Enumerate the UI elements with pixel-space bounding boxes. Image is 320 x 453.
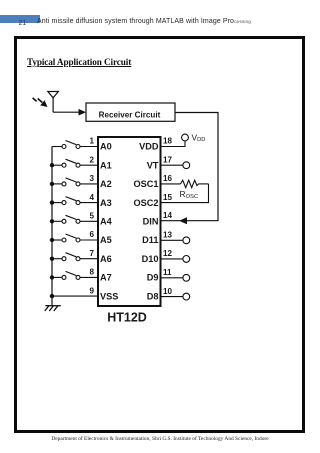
- svg-text:D9: D9: [147, 273, 159, 283]
- svg-text:Receiver Circuit: Receiver Circuit: [99, 110, 161, 119]
- wire pin10: [161, 296, 184, 298]
- junction: [50, 182, 54, 186]
- junction: [50, 294, 54, 298]
- wire pin18 to VDD terminal: [161, 141, 186, 147]
- VDD terminal: [182, 134, 189, 141]
- junction: [50, 219, 54, 223]
- svg-text:4: 4: [89, 193, 94, 202]
- svg-text:HT12D: HT12D: [107, 311, 147, 325]
- D9 terminal: [183, 274, 190, 281]
- resistor ROSC: [161, 180, 209, 187]
- antenna ANT1: [48, 92, 59, 113]
- svg-text:OSC2: OSC2: [133, 198, 158, 208]
- svg-text:D10: D10: [142, 254, 159, 264]
- svg-text:A2: A2: [100, 179, 112, 189]
- svg-text:A7: A7: [100, 273, 112, 283]
- svg-text:VT: VT: [147, 160, 159, 170]
- svg-text:6: 6: [89, 230, 94, 239]
- section heading: [27, 57, 131, 67]
- switch S1: [52, 141, 98, 149]
- wire receiver to DIN: [175, 113, 218, 225]
- D11 terminal: [183, 237, 190, 244]
- switch S4: [52, 197, 98, 205]
- svg-text:18: 18: [163, 137, 173, 146]
- wire pin17: [161, 164, 184, 166]
- junction: [50, 275, 54, 279]
- switch S5: [52, 215, 98, 223]
- IC U1 HT12D body: [98, 137, 161, 306]
- switch S8: [52, 271, 98, 279]
- header page number bar: [0, 15, 40, 22]
- svg-text:13: 13: [163, 231, 173, 240]
- svg-text:A4: A4: [100, 217, 113, 227]
- svg-text:15: 15: [163, 193, 173, 202]
- svg-text:9: 9: [89, 286, 94, 295]
- receiver circuit block: [86, 103, 175, 121]
- switch S3: [52, 178, 98, 186]
- D8 terminal: [183, 293, 190, 300]
- wire pin13: [161, 239, 184, 241]
- svg-text:8: 8: [89, 268, 94, 277]
- svg-text:7: 7: [89, 249, 94, 258]
- svg-text:A5: A5: [100, 235, 112, 245]
- svg-text:A1: A1: [100, 160, 112, 170]
- wire pin12: [161, 258, 184, 260]
- wire OSC2 loop: [161, 184, 209, 203]
- svg-text:A3: A3: [100, 198, 112, 208]
- wire VSS to bus: [52, 295, 98, 297]
- wire pin11: [161, 277, 184, 279]
- svg-text:ROSC: ROSC: [180, 189, 199, 200]
- svg-text:16: 16: [163, 174, 173, 183]
- svg-text:12: 12: [163, 249, 173, 258]
- D10 terminal: [183, 256, 190, 263]
- wire antenna to receiver: [53, 109, 86, 116]
- svg-text:VDD: VDD: [139, 142, 159, 152]
- page border frame: [14, 36, 306, 433]
- footer text: [0, 436, 320, 442]
- svg-text:A6: A6: [100, 254, 112, 264]
- junction: [50, 200, 54, 204]
- svg-text:3: 3: [89, 174, 94, 183]
- svg-text:14: 14: [163, 211, 173, 220]
- svg-text:VSS: VSS: [100, 291, 118, 301]
- svg-text:DIN: DIN: [143, 217, 159, 227]
- header title: [37, 18, 251, 25]
- switch S7: [52, 253, 98, 261]
- svg-text:1: 1: [89, 137, 94, 146]
- switch S6: [52, 234, 98, 242]
- junction: [50, 163, 54, 167]
- svg-text:OSC1: OSC1: [133, 179, 158, 189]
- ground: [45, 306, 61, 311]
- VT terminal: [183, 162, 190, 169]
- ground bus wire: [51, 147, 53, 306]
- RF input arrow: [33, 98, 48, 107]
- svg-text:2: 2: [89, 155, 94, 164]
- junction: [50, 238, 54, 242]
- svg-text:11: 11: [163, 268, 172, 277]
- header page number: [19, 20, 27, 27]
- svg-text:17: 17: [163, 155, 173, 164]
- svg-text:5: 5: [89, 212, 94, 221]
- switch S2: [52, 159, 98, 167]
- junction: [50, 257, 54, 261]
- svg-text:VDD: VDD: [192, 132, 206, 143]
- svg-text:D11: D11: [142, 235, 158, 245]
- svg-text:D8: D8: [147, 291, 159, 301]
- svg-text:A0: A0: [100, 142, 112, 152]
- wire pin14 stub: [161, 220, 181, 222]
- svg-text:10: 10: [163, 287, 173, 296]
